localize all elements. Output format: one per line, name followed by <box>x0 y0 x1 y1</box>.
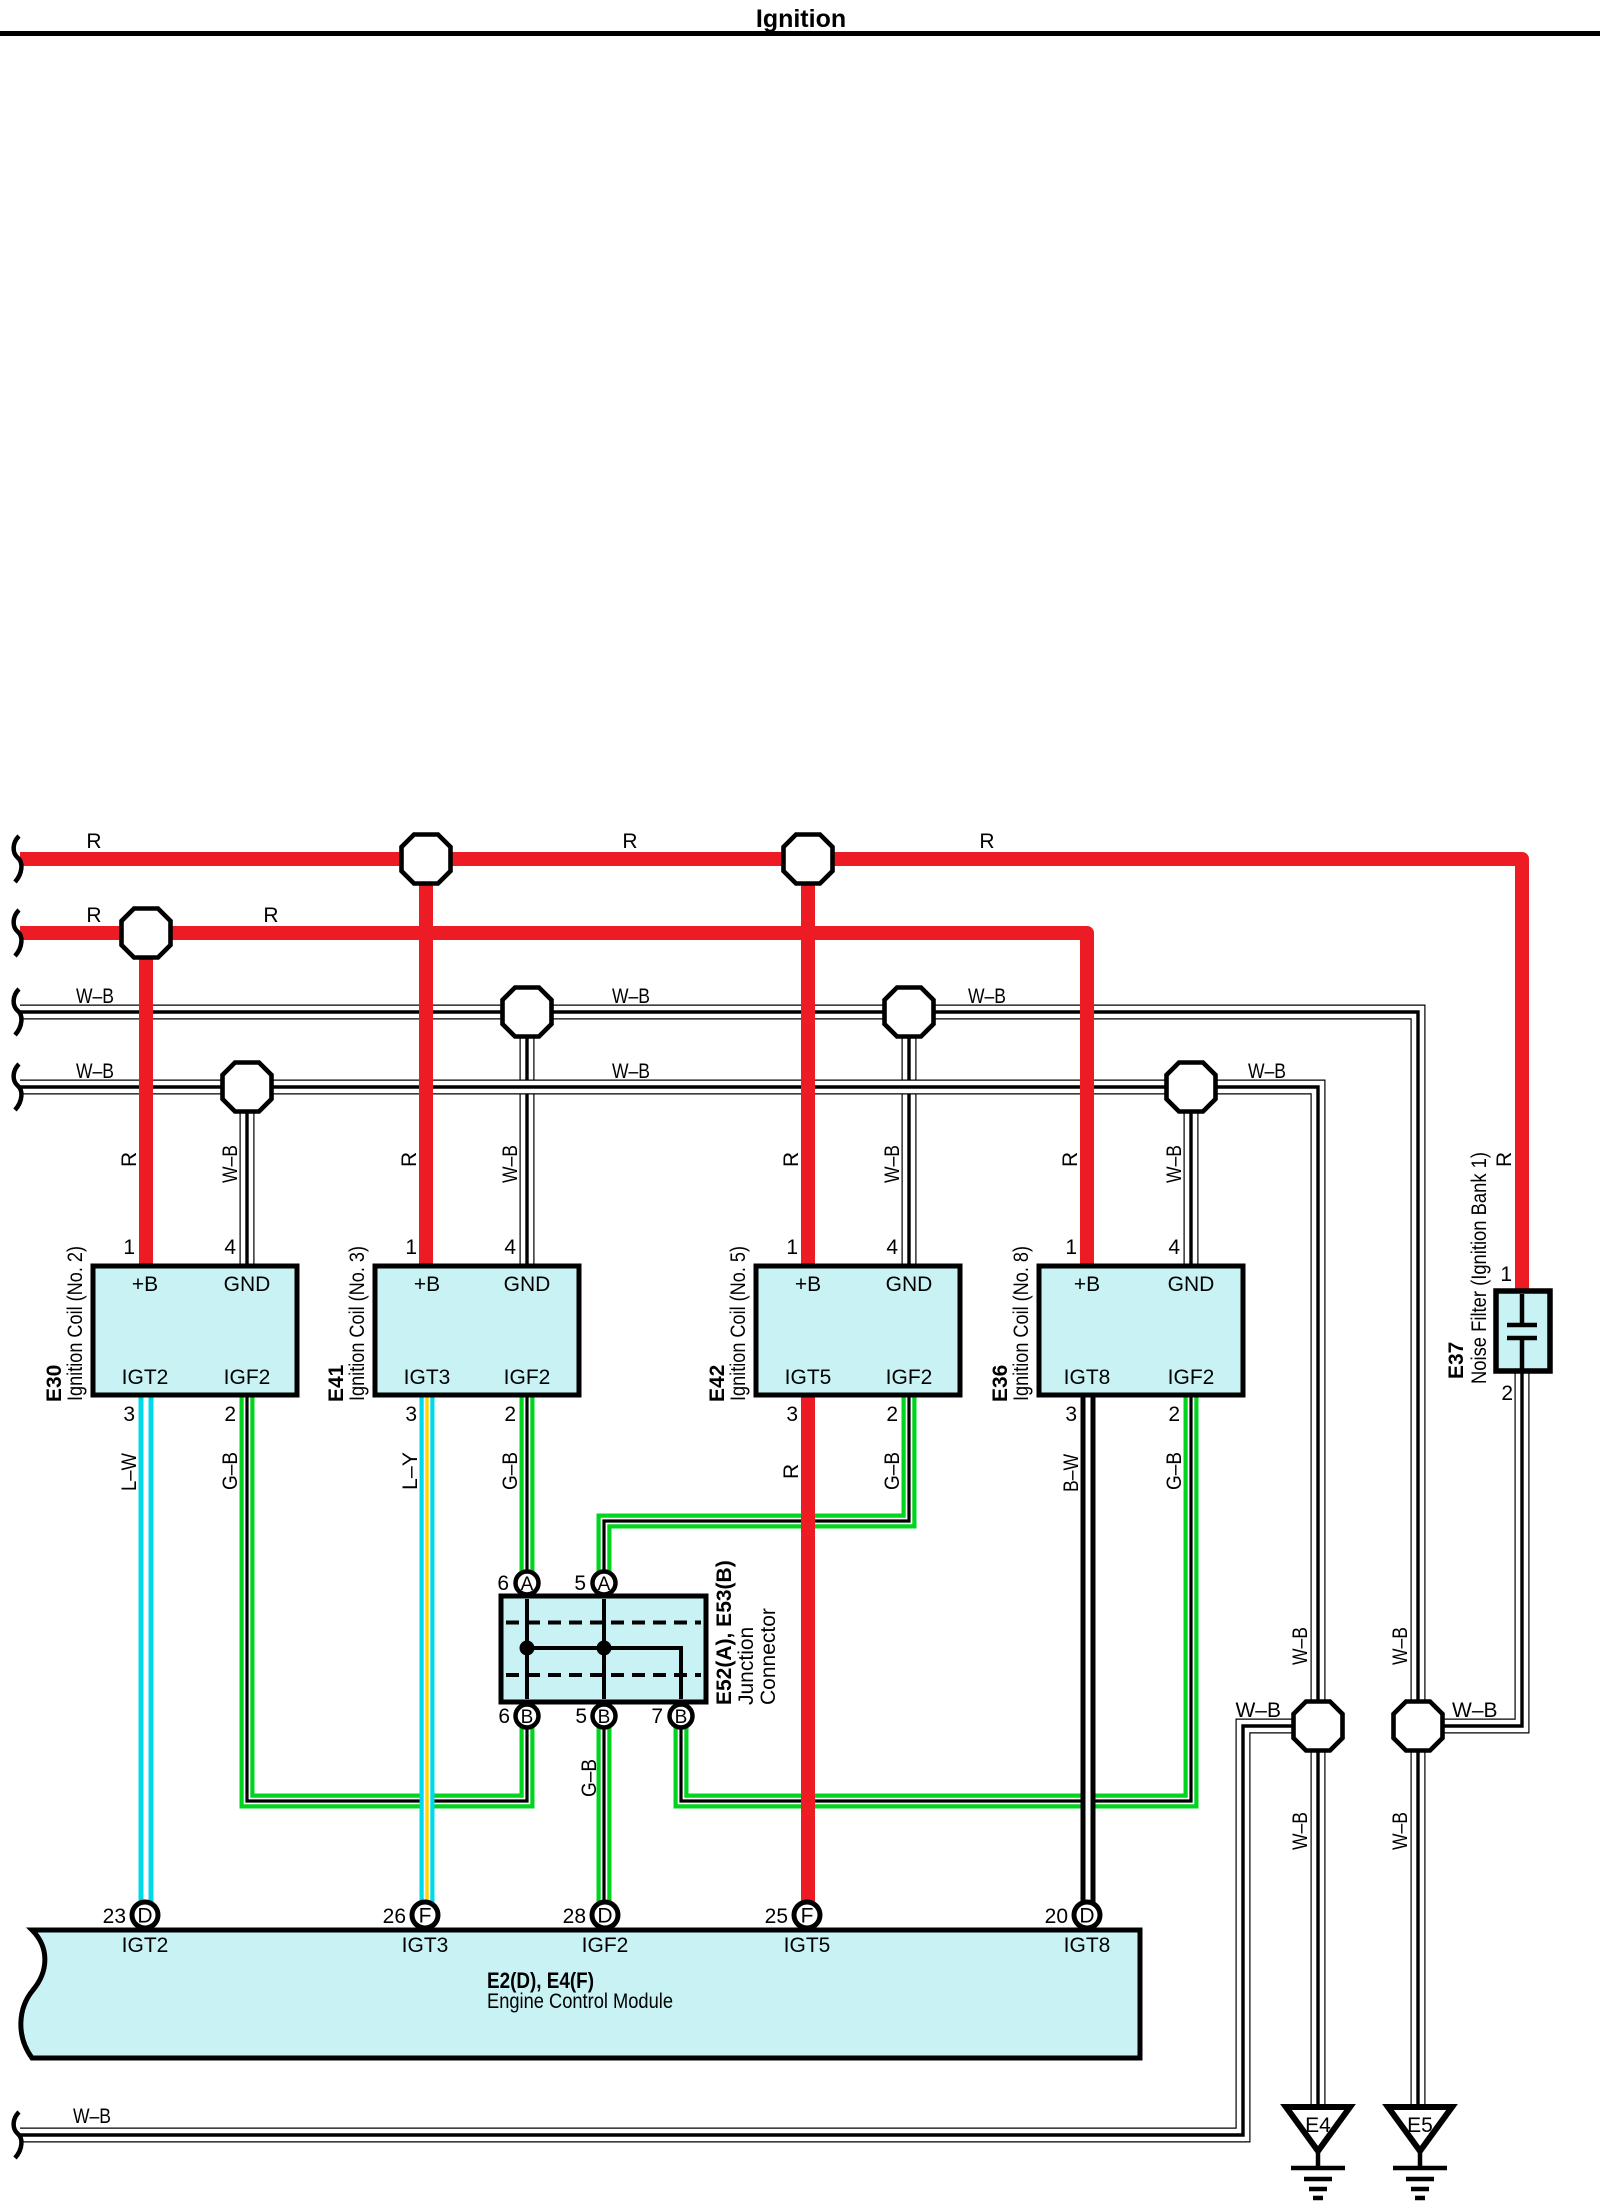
wire W-B coil3 GND <box>902 1012 917 1267</box>
svg-text:Ignition Coil (No. 8): Ignition Coil (No. 8) <box>1010 1246 1033 1401</box>
wire B-W coil4 IGT8 to ECM <box>1060 1394 1088 1903</box>
svg-text:W–B: W–B <box>1452 1699 1498 1722</box>
svg-text:+B: +B <box>414 1273 440 1296</box>
svg-text:E41: E41 <box>325 1364 348 1402</box>
svg-text:B: B <box>675 1707 688 1728</box>
svg-text:R: R <box>1493 1152 1516 1167</box>
svg-text:R: R <box>780 1464 803 1479</box>
ground E4 <box>1286 2107 1350 2198</box>
svg-text:G–B: G–B <box>881 1452 904 1490</box>
svg-text:IGT2: IGT2 <box>122 1934 169 1957</box>
svg-text:D: D <box>1079 1905 1094 1928</box>
svg-text:R: R <box>1059 1152 1082 1167</box>
ignition coil E41 <box>325 1236 579 1426</box>
svg-text:2: 2 <box>504 1403 516 1426</box>
svg-text:+B: +B <box>132 1273 158 1296</box>
svg-text:5: 5 <box>575 1705 587 1728</box>
svg-text:W–B: W–B <box>499 1145 522 1183</box>
svg-text:Ignition Coil (No. 5): Ignition Coil (No. 5) <box>727 1246 750 1401</box>
svg-text:A: A <box>521 1574 534 1595</box>
svg-text:3: 3 <box>786 1403 798 1426</box>
wire W-B bus 1 (to ground E5) <box>20 985 1418 2106</box>
ground E5 <box>1388 2107 1452 2198</box>
svg-text:20: 20 <box>1045 1905 1068 1928</box>
svg-text:E4: E4 <box>1305 2114 1331 2137</box>
wire W-B coil2 GND <box>520 1012 535 1267</box>
svg-text:2: 2 <box>224 1403 236 1426</box>
svg-text:R: R <box>398 1152 421 1167</box>
svg-text:A: A <box>598 1574 611 1595</box>
continuation break W-B bottom <box>14 2112 22 2158</box>
wire G-B coil1 IGF2 to junction 6B <box>219 1394 527 1801</box>
ignition coil E42 <box>706 1236 960 1426</box>
svg-text:6: 6 <box>498 1705 510 1728</box>
wire R coil1 +B <box>118 933 146 1267</box>
svg-text:1: 1 <box>405 1236 417 1259</box>
svg-text:R: R <box>86 904 101 927</box>
wire W-B from node to bottom-left continuation <box>20 1699 1318 2135</box>
svg-text:E42: E42 <box>706 1365 729 1402</box>
svg-text:IGT8: IGT8 <box>1064 1366 1111 1389</box>
svg-text:W–B: W–B <box>1248 1060 1286 1083</box>
continuation break R bus 2 <box>14 910 22 956</box>
wire W-B noise filter pin 2 to junction node <box>1418 1370 1522 1726</box>
svg-text:1: 1 <box>1065 1236 1077 1259</box>
svg-text:W–B: W–B <box>219 1145 242 1183</box>
svg-text:W–B: W–B <box>1163 1145 1186 1183</box>
wire G-B coil2 IGF2 to junction 6A <box>499 1394 527 1583</box>
svg-text:W–B: W–B <box>1389 1812 1412 1850</box>
svg-text:W–B: W–B <box>881 1145 904 1183</box>
node octagon W-B ground E4 branch <box>1294 1702 1343 1751</box>
svg-text:IGT3: IGT3 <box>402 1934 449 1957</box>
svg-text:3: 3 <box>123 1403 135 1426</box>
svg-text:7: 7 <box>651 1705 663 1728</box>
svg-text:4: 4 <box>886 1236 898 1259</box>
svg-text:2: 2 <box>1501 1382 1513 1405</box>
svg-text:GND: GND <box>224 1273 271 1296</box>
svg-text:2: 2 <box>886 1403 898 1426</box>
ignition coil E36 <box>989 1236 1243 1426</box>
svg-text:W–B: W–B <box>968 985 1006 1008</box>
noise filter E37 (capacitor) <box>1445 1152 1550 1405</box>
svg-text:IGF2: IGF2 <box>582 1934 629 1957</box>
svg-text:Junction: Junction <box>735 1627 758 1705</box>
svg-text:4: 4 <box>504 1236 516 1259</box>
svg-text:R: R <box>622 830 637 853</box>
svg-text:R: R <box>780 1152 803 1167</box>
svg-text:IGT8: IGT8 <box>1064 1934 1111 1957</box>
svg-text:G–B: G–B <box>219 1452 242 1490</box>
wire G-B coil3 IGF2 to junction 5A <box>604 1394 909 1583</box>
svg-text:1: 1 <box>123 1236 135 1259</box>
wire R coil2 +B <box>398 859 426 1267</box>
svg-text:W–B: W–B <box>612 985 650 1008</box>
svg-text:R: R <box>979 830 994 853</box>
svg-text:E5: E5 <box>1407 2114 1433 2137</box>
svg-text:Engine Control Module: Engine Control Module <box>487 1990 673 2013</box>
svg-text:L–Y: L–Y <box>399 1452 422 1490</box>
svg-text:D: D <box>137 1905 152 1928</box>
svg-text:IGT3: IGT3 <box>404 1366 451 1389</box>
wire G-B junction 5B to ECM IGF2 <box>578 1716 604 1903</box>
svg-text:G–B: G–B <box>1163 1452 1186 1490</box>
svg-text:IGF2: IGF2 <box>504 1366 551 1389</box>
svg-text:R: R <box>86 830 101 853</box>
svg-text:B: B <box>521 1707 534 1728</box>
svg-text:W–B: W–B <box>612 1060 650 1083</box>
svg-text:25: 25 <box>765 1905 788 1928</box>
wire G-B coil4 IGF2 to junction 7B <box>681 1394 1191 1801</box>
node octagon R bus2 / coil1 +B <box>122 909 171 958</box>
svg-text:GND: GND <box>1168 1273 1215 1296</box>
svg-text:+B: +B <box>1074 1273 1100 1296</box>
svg-text:3: 3 <box>1065 1403 1077 1426</box>
svg-text:Noise Filter (Ignition Bank 1): Noise Filter (Ignition Bank 1) <box>1468 1152 1491 1384</box>
svg-text:E36: E36 <box>989 1365 1012 1402</box>
ignition coil E30 <box>43 1236 297 1426</box>
svg-text:W–B: W–B <box>1289 1627 1312 1665</box>
wire W-B bus 2 (to ground E4) <box>20 1060 1318 2106</box>
svg-text:IGF2: IGF2 <box>224 1366 271 1389</box>
svg-text:G–B: G–B <box>578 1759 601 1797</box>
node octagon R bus1 / coil2 +B <box>402 835 451 884</box>
wire R bus 1 (top, to noise filter pin 1) <box>20 830 1522 1292</box>
svg-text:IGF2: IGF2 <box>1168 1366 1215 1389</box>
svg-text:IGT5: IGT5 <box>785 1366 832 1389</box>
svg-text:F: F <box>419 1905 432 1928</box>
svg-text:IGF2: IGF2 <box>886 1366 933 1389</box>
svg-text:W–B: W–B <box>73 2105 111 2128</box>
continuation break W-B bus 1 <box>14 989 22 1035</box>
svg-text:4: 4 <box>1168 1236 1180 1259</box>
wire W-B coil1 GND <box>240 1087 255 1267</box>
wire R bus 2 (to coil4 +B) <box>20 904 1087 1267</box>
svg-text:23: 23 <box>103 1905 126 1928</box>
svg-text:F: F <box>801 1905 814 1928</box>
svg-text:5: 5 <box>574 1572 586 1595</box>
svg-text:B–W: B–W <box>1060 1454 1083 1492</box>
svg-text:IGT2: IGT2 <box>122 1366 169 1389</box>
svg-text:GND: GND <box>504 1273 551 1296</box>
svg-text:+B: +B <box>795 1273 821 1296</box>
svg-text:Ignition Coil (No. 3): Ignition Coil (No. 3) <box>346 1246 369 1401</box>
wire R coil3 IGT5 to ECM <box>780 1394 808 1903</box>
svg-text:E37: E37 <box>1445 1342 1468 1379</box>
svg-text:W–B: W–B <box>76 985 114 1008</box>
svg-text:Ignition Coil (No. 2): Ignition Coil (No. 2) <box>64 1246 87 1401</box>
svg-text:L–W: L–W <box>118 1453 141 1491</box>
svg-text:1: 1 <box>1500 1263 1512 1286</box>
svg-text:E52(A), E53(B): E52(A), E53(B) <box>713 1560 736 1705</box>
node octagon W-B bus2 / coil4 GND <box>1167 1063 1216 1112</box>
continuation break W-B bus 2 <box>14 1064 22 1110</box>
node octagon W-B bus1 / coil3 GND <box>885 988 934 1037</box>
svg-text:R: R <box>263 904 278 927</box>
svg-text:W–B: W–B <box>1289 1812 1312 1850</box>
svg-text:2: 2 <box>1168 1403 1180 1426</box>
svg-text:E30: E30 <box>43 1365 66 1402</box>
svg-text:GND: GND <box>886 1273 933 1296</box>
svg-text:IGT5: IGT5 <box>784 1934 831 1957</box>
svg-text:R: R <box>118 1152 141 1167</box>
junction connector E52(A), E53(B) <box>497 1560 780 1728</box>
svg-text:28: 28 <box>563 1905 586 1928</box>
svg-text:26: 26 <box>383 1905 406 1928</box>
svg-text:G–B: G–B <box>499 1452 522 1490</box>
svg-text:W–B: W–B <box>1389 1627 1412 1665</box>
title Ignition <box>0 5 1600 36</box>
svg-text:W–B: W–B <box>1235 1699 1281 1722</box>
svg-text:Ignition: Ignition <box>756 5 846 33</box>
svg-text:4: 4 <box>224 1236 236 1259</box>
wire R coil3 +B <box>780 859 808 1267</box>
svg-text:6: 6 <box>497 1572 509 1595</box>
node octagon W-B ground E5 branch <box>1394 1702 1443 1751</box>
svg-text:3: 3 <box>405 1403 417 1426</box>
node octagon W-B bus1 / coil2 GND <box>503 988 552 1037</box>
node octagon W-B bus2 / coil1 GND <box>223 1063 272 1112</box>
svg-text:B: B <box>598 1707 611 1728</box>
continuation break R bus 1 <box>14 836 22 882</box>
svg-text:Connector: Connector <box>757 1608 780 1705</box>
svg-text:D: D <box>597 1905 612 1928</box>
engine control module E2(D), E4(F) <box>21 1902 1140 2058</box>
svg-text:W–B: W–B <box>76 1060 114 1083</box>
wire L-W coil1 IGT2 to ECM <box>118 1394 146 1903</box>
node octagon R bus1 / coil3 +B <box>784 835 833 884</box>
wire W-B coil4 GND <box>1184 1087 1199 1267</box>
svg-text:1: 1 <box>786 1236 798 1259</box>
wire L-Y coil2 IGT3 to ECM <box>399 1394 427 1903</box>
